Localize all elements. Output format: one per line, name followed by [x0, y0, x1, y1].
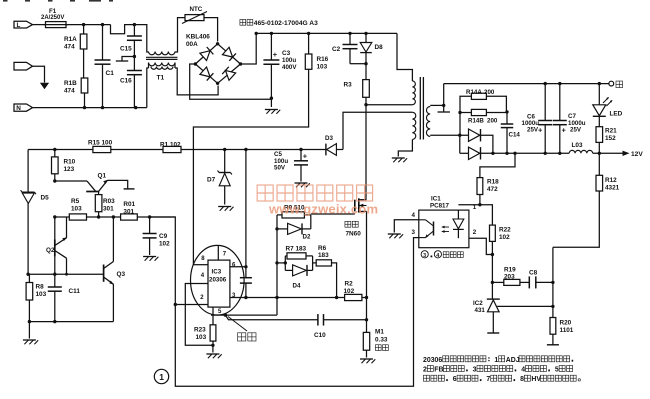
zener D5: [21, 150, 50, 275]
svg-text:301: 301: [123, 208, 134, 215]
resistor R23: [194, 315, 216, 347]
resistor R1A: [64, 25, 87, 78]
wire IC3 pin2: [175, 304, 208, 306]
svg-text:R21: R21: [605, 128, 617, 135]
terminal L: [14, 21, 33, 29]
wire IC3 pin8: [193, 264, 208, 266]
terminal PE (earth): [14, 62, 49, 89]
capacitor C7: [553, 84, 586, 154]
svg-text:LED: LED: [610, 111, 623, 118]
svg-text:HV: HV: [531, 376, 541, 383]
pin 8 label IC3: [201, 256, 205, 262]
resistor R2: [337, 281, 369, 301]
output 12V arrow: [593, 151, 644, 158]
svg-text:C9: C9: [159, 233, 168, 240]
wire NTC to bridge: [204, 18, 218, 42]
svg-text:C8: C8: [529, 270, 538, 277]
resistor R21: [596, 116, 617, 155]
resistor R10: [52, 150, 76, 183]
zener D7: [207, 150, 232, 205]
svg-text:C2: C2: [332, 46, 341, 53]
capacitor C15: [120, 25, 142, 57]
label bottom note line2: [423, 366, 573, 374]
wire gate network column: [275, 215, 278, 315]
transformer T2: [412, 77, 430, 140]
wire R22 to R19 node: [491, 255, 494, 300]
svg-text:50V: 50V: [274, 165, 286, 172]
svg-text:3: 3: [423, 253, 426, 259]
pin 5 label IC3: [218, 309, 222, 315]
svg-text:102: 102: [344, 288, 355, 295]
wire HV+ bus: [255, 32, 413, 81]
ground R8: [23, 322, 38, 345]
wire IC1 pin2: [469, 238, 493, 254]
svg-text:D4: D4: [293, 283, 301, 290]
svg-text:465-0102-17004G A3: 465-0102-17004G A3: [254, 20, 318, 27]
svg-text:103: 103: [196, 334, 207, 341]
svg-text:2: 2: [423, 367, 427, 374]
transistor Q1: [55, 173, 135, 192]
wire to gate: [311, 214, 355, 229]
resistor R22: [480, 205, 511, 257]
wire IC1 pin3 feedback loop: [175, 238, 418, 387]
svg-text:4: 4: [412, 212, 416, 219]
ground R23: [206, 345, 221, 358]
wire secondary top to rail: [430, 84, 445, 108]
ground aux winding: [392, 158, 407, 162]
resistor R9: [277, 204, 311, 218]
svg-text:00A: 00A: [186, 41, 198, 48]
capacitor C9: [143, 217, 171, 255]
capacitor C10: [225, 314, 368, 339]
wire latch node: [26, 273, 103, 276]
node Y-cap midpoint: [116, 55, 136, 61]
label 3-4 pin leakage: [421, 251, 463, 259]
capacitor C8: [529, 270, 555, 289]
terminal earth 地: [609, 81, 623, 88]
wire VCC line: [28, 148, 326, 151]
svg-text:R7 183: R7 183: [286, 246, 307, 253]
bridge rectifier KBL406: [186, 34, 242, 86]
svg-text:183: 183: [318, 252, 329, 259]
capacitor C16: [120, 57, 142, 108]
svg-text:R14B: R14B: [468, 118, 484, 125]
resistor R18: [477, 153, 515, 206]
wire C2-D8 junction: [350, 62, 368, 65]
svg-text:400V: 400V: [282, 64, 297, 71]
svg-text:12V: 12V: [631, 151, 643, 158]
pin 7 label IC3: [223, 251, 227, 257]
svg-text:152: 152: [605, 135, 616, 142]
resistor R14B: [458, 109, 508, 124]
ground C3: [265, 110, 280, 114]
watermark: [257, 185, 378, 216]
svg-text:R1A: R1A: [64, 36, 77, 43]
shunt regulator IC2 431: [473, 299, 555, 333]
svg-text:102: 102: [159, 241, 170, 248]
label bottom note line3: [423, 375, 580, 383]
svg-text:R20: R20: [560, 320, 572, 327]
ground C9: [143, 257, 158, 261]
svg-text:D2: D2: [303, 233, 311, 240]
label circled 1: [154, 369, 168, 383]
svg-text:R2: R2: [345, 281, 354, 288]
svg-text:2A/250V: 2A/250V: [41, 15, 64, 21]
diode D8: [360, 33, 383, 63]
optocoupler IC1 PC817: [419, 196, 469, 248]
svg-text:R22: R22: [499, 227, 511, 234]
resistor R12: [553, 153, 620, 247]
svg-text:3: 3: [412, 229, 416, 236]
svg-text:IC3: IC3: [212, 269, 222, 276]
svg-text:D7: D7: [207, 177, 216, 184]
capacitor C6: [522, 84, 553, 154]
svg-text:4: 4: [436, 253, 439, 259]
fuse F1: [41, 8, 68, 27]
svg-text:203: 203: [504, 274, 515, 281]
wire IC3 pin5 drive: [211, 307, 277, 317]
capacitor C11: [48, 274, 81, 321]
svg-text:103: 103: [71, 206, 82, 213]
svg-text:T1: T1: [157, 75, 165, 82]
svg-text:2: 2: [473, 229, 477, 236]
thermistor NTC: [182, 6, 207, 24]
svg-text:25V: 25V: [527, 127, 539, 134]
svg-text:R8: R8: [36, 284, 45, 291]
svg-text:0.33: 0.33: [375, 336, 388, 343]
ground D7: [218, 207, 233, 211]
transformer T1: [146, 52, 178, 82]
label board number: [240, 19, 318, 27]
svg-text:C15: C15: [120, 46, 132, 53]
wire IC1 pin1: [458, 204, 480, 206]
svg-text:103: 103: [317, 64, 328, 71]
svg-text:FB: FB: [434, 367, 443, 374]
resistor R6: [316, 245, 338, 299]
resistor R5: [69, 198, 86, 220]
svg-text:1101: 1101: [560, 327, 574, 334]
svg-text:D5: D5: [41, 195, 50, 202]
svg-text:R16: R16: [317, 56, 329, 63]
svg-text:NTC: NTC: [190, 6, 203, 13]
resistor R01: [121, 201, 138, 220]
svg-text:8: 8: [520, 376, 524, 383]
svg-text:R12: R12: [605, 177, 617, 184]
capacitor C1: [95, 25, 115, 108]
inductor L03: [569, 142, 593, 153]
transistor Q2: [46, 217, 67, 274]
wire aux winding to ground: [398, 139, 412, 156]
wire upper diode out: [481, 135, 495, 155]
diode D3: [325, 135, 343, 155]
wire IC1 pin4 to ground: [394, 220, 419, 233]
svg-text:200: 200: [487, 118, 498, 125]
capacitor C2: [332, 33, 358, 63]
label bottom note line1: [423, 356, 573, 364]
svg-text:C11: C11: [69, 288, 81, 295]
svg-text:103: 103: [36, 291, 47, 298]
wire latch emitter bus: [29, 320, 113, 323]
svg-text:R3: R3: [344, 82, 353, 89]
resistor R19: [492, 267, 529, 286]
pin 6 label IC3: [232, 262, 236, 268]
shield stub: [438, 105, 451, 112]
resistor R14A: [460, 89, 506, 135]
svg-text:C16: C16: [120, 78, 132, 85]
pin 3 label IC3: [232, 293, 236, 299]
svg-text:ADJ: ADJ: [506, 357, 520, 364]
wire N line: [33, 68, 149, 109]
svg-text:20306: 20306: [423, 357, 442, 364]
svg-text:R03: R03: [103, 198, 115, 205]
resistor R8: [26, 274, 47, 323]
svg-text:200: 200: [484, 89, 495, 96]
svg-text:F1: F1: [49, 8, 57, 15]
svg-text:20306: 20306: [209, 277, 227, 284]
svg-text:M1: M1: [375, 329, 384, 336]
resistor R03: [95, 192, 115, 218]
svg-text:C10: C10: [314, 332, 326, 339]
svg-text:301: 301: [103, 206, 114, 213]
svg-text:474: 474: [64, 44, 75, 51]
wire IC3 pin3 current sense: [230, 296, 337, 299]
wire bridge minus to C3 gnd: [190, 64, 272, 99]
wire L line (fuse to filter): [66, 23, 149, 52]
svg-text:PC817: PC817: [430, 202, 449, 209]
transistor Q3: [104, 217, 126, 322]
svg-text:Q3: Q3: [117, 271, 126, 278]
svg-text:4321: 4321: [605, 185, 620, 192]
diode D2: [277, 223, 311, 240]
svg-text:L: L: [17, 22, 21, 29]
ground IC1 pin4: [388, 234, 403, 238]
ground M1: [360, 359, 375, 363]
label damaged pointer: [228, 317, 256, 342]
svg-text:100u: 100u: [282, 57, 296, 64]
wire MOSFET source: [366, 211, 368, 319]
wire drain node: [364, 103, 412, 200]
svg-text:KBL406: KBL406: [186, 34, 210, 41]
diode D4: [285, 265, 312, 290]
svg-text:102: 102: [499, 234, 510, 241]
svg-text:Q2: Q2: [46, 247, 55, 254]
svg-text:www.gzweix.com: www.gzweix.com: [268, 202, 378, 217]
svg-text:472: 472: [487, 186, 498, 193]
svg-text:431: 431: [475, 307, 486, 314]
svg-text:Q1: Q1: [98, 173, 107, 180]
wire 12V rail: [481, 152, 570, 155]
svg-text:N: N: [16, 105, 21, 112]
svg-text:6: 6: [453, 376, 457, 383]
svg-text:R1B: R1B: [64, 80, 77, 87]
pin 1 label IC1: [473, 204, 477, 211]
diode D upper (secondary): [469, 129, 481, 141]
wire R7-D4 bracket: [277, 256, 316, 271]
svg-text:R10: R10: [64, 159, 76, 166]
MOSFET V1 7N60: [345, 198, 367, 237]
top edge cropped text remnants: [3, 0, 113, 2]
svg-text:R1 102: R1 102: [160, 141, 181, 148]
svg-text:474: 474: [64, 88, 75, 95]
svg-text:+: +: [562, 126, 567, 135]
wire T1 to NTC: [175, 18, 185, 52]
capacitor C14: [501, 112, 521, 153]
wire aux winding to D3 node: [343, 112, 412, 149]
svg-text:D8: D8: [375, 44, 384, 51]
diode D lower (secondary): [460, 135, 481, 159]
svg-text:R5: R5: [71, 198, 80, 205]
capacitor C5: [274, 150, 308, 182]
svg-text:C3: C3: [282, 50, 291, 57]
capacitor pin6 bypass: [240, 267, 252, 299]
resistor R1: [160, 141, 181, 152]
resistor R15: [88, 140, 113, 153]
wire 0V rail: [444, 82, 609, 85]
svg-text:R15 100: R15 100: [88, 140, 113, 147]
wire feedback riser: [150, 217, 177, 306]
wire T1 to bridge AC2: [175, 68, 218, 95]
svg-text:123: 123: [64, 166, 75, 173]
svg-text:R01: R01: [123, 201, 135, 208]
wire divider column: [552, 247, 554, 317]
svg-text:+: +: [303, 152, 308, 161]
svg-text:25V: 25V: [570, 127, 582, 134]
terminal N: [14, 104, 33, 112]
wire IC3 pin4 to ground: [185, 284, 213, 346]
ground C5: [295, 183, 310, 187]
resistor R16 startup: [193, 33, 328, 264]
svg-text:C1: C1: [106, 70, 115, 77]
IC U3 20306: [191, 245, 245, 315]
resistor R20: [547, 318, 574, 345]
svg-text:R6: R6: [318, 245, 327, 252]
wire soft-start node: [53, 215, 175, 218]
resistor R3: [344, 64, 370, 105]
wire IC3 pin6 VCC: [230, 150, 248, 269]
svg-text:4: 4: [521, 367, 525, 374]
svg-text:R18: R18: [487, 179, 499, 186]
svg-text:L03: L03: [572, 142, 583, 149]
wire L to F1: [33, 24, 46, 26]
pin 2 label IC1: [473, 229, 477, 236]
svg-text:1: 1: [159, 372, 164, 382]
svg-text:3: 3: [473, 367, 477, 374]
svg-text:7N60: 7N60: [346, 230, 362, 237]
capacitor C3: [263, 33, 297, 107]
resistor R1B: [64, 78, 88, 108]
resistor R7: [285, 246, 312, 259]
svg-text:C14: C14: [509, 132, 521, 139]
pin 3 label IC1: [412, 229, 416, 236]
svg-text:7: 7: [486, 376, 490, 383]
wire secondary bottom: [430, 134, 468, 137]
pin 4 label IC3: [201, 273, 205, 279]
svg-text:5: 5: [555, 367, 559, 374]
wire IC3 pin7 stub: [217, 246, 219, 260]
pin 2 label IC3: [200, 295, 204, 301]
svg-text:D3: D3: [325, 135, 333, 142]
pin 4 label IC1: [412, 212, 416, 219]
LED indicator: [593, 84, 623, 118]
svg-text:R14A: R14A: [466, 89, 482, 96]
svg-text:R19: R19: [504, 267, 516, 274]
wire bridge plus to bus: [241, 33, 257, 64]
resistor M1 0.33: [363, 320, 388, 358]
svg-text:+: +: [273, 50, 278, 59]
svg-text:1: 1: [494, 357, 498, 364]
svg-text:R23: R23: [194, 327, 206, 334]
